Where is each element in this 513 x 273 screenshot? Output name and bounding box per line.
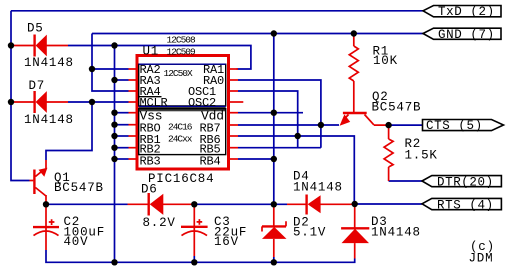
junction RB1 / bus — [111, 133, 117, 139]
pin stub RB3 (pin 9) — [129, 158, 137, 160]
pin stub RA2 (pin 1) — [129, 68, 137, 70]
wire RA0 pin to right vertical — [238, 80, 321, 148]
svg-text:1N4148: 1N4148 — [24, 113, 74, 127]
svg-text:12C50X: 12C50X — [164, 68, 194, 79]
pin stub Vdd (pin 14) — [230, 112, 239, 114]
wire mid rail left blue — [46, 203, 128, 205]
junction D5 line / Vss bus — [111, 42, 117, 48]
wire D2 lower blue — [273, 257, 275, 262]
diode D5 — [11, 35, 68, 57]
wire mid rail center blue — [194, 203, 287, 205]
svg-text:1N4148: 1N4148 — [371, 226, 421, 240]
svg-text:CTS (5): CTS (5) — [426, 119, 483, 133]
pin stub OSC2 (pin 15) — [230, 101, 244, 103]
junction RB6 / OSC1 branch — [295, 133, 301, 139]
wire RB0 pin — [115, 124, 129, 126]
connector DTR(20) — [422, 176, 501, 187]
pin stub RA0 (pin 17) — [230, 79, 239, 81]
svg-text:TxD (2): TxD (2) — [438, 5, 495, 19]
wire D5 line to 12C509 / RA1 — [68, 46, 251, 70]
wire GND to Vdd vertical x=273.8 — [273, 34, 275, 205]
junction RB3 / bus — [111, 156, 117, 162]
wire MCLR pin from D7 — [68, 101, 129, 103]
connector CTS (5) — [423, 120, 504, 131]
svg-text:PIC16C84: PIC16C84 — [148, 172, 214, 186]
svg-text:40V: 40V — [64, 235, 89, 249]
svg-text:RB3: RB3 — [140, 155, 161, 169]
wire RA3 pin — [115, 79, 129, 81]
junction mid rail / D2 — [271, 201, 277, 207]
pin underline RA4 — [139, 96, 162, 98]
pin stub OSC1 (pin 16) — [230, 90, 239, 92]
IC inner socket box upper — [139, 64, 226, 106]
junction TxD rail / D5 anode — [8, 42, 14, 48]
wire RB2 pin — [115, 147, 129, 149]
transistor Q1 BC547B — [30, 160, 48, 227]
pin stub RA4 (pin 3) — [129, 90, 137, 92]
junction RB2 / bus — [111, 145, 117, 151]
pin stub RB5 (pin 11) — [230, 147, 239, 149]
junction MCLR / Q1 emitter branch — [89, 99, 95, 105]
pin stub RB2 (pin 8) — [129, 147, 137, 149]
resistor R2 1.5K — [384, 125, 393, 181]
pin stub RB0 (pin 6) — [129, 124, 137, 126]
IC inner socket box lower — [139, 109, 226, 155]
wire GND rail — [92, 33, 424, 35]
pin stub RA1 (pin 18) — [230, 68, 239, 70]
svg-text:D5: D5 — [27, 22, 44, 36]
wire bottom rail — [46, 250, 355, 262]
pin stub RB4 (pin 10) — [230, 158, 239, 160]
wire OSC1 pin to vertical — [238, 91, 298, 148]
svg-text:16V: 16V — [214, 235, 239, 249]
wire GND rail corner down to RA4 pin — [92, 34, 129, 92]
wire RTS line — [355, 203, 422, 205]
resistor R1 10K — [349, 34, 358, 113]
pin stub RA3 (pin 2) — [129, 79, 137, 81]
pin stub Vss (pin 5) — [129, 112, 137, 114]
wire left vertical from TxD rail down to Q1 base — [11, 11, 30, 181]
svg-text:8.2V: 8.2V — [143, 216, 176, 230]
junction RTS line / D3 / RB6 branch — [352, 201, 358, 207]
svg-text:D7: D7 — [29, 79, 46, 93]
svg-text:12C508: 12C508 — [167, 35, 197, 46]
svg-text:1N4148: 1N4148 — [293, 181, 343, 195]
svg-text:DTR(20): DTR(20) — [437, 175, 494, 189]
svg-text:24C16: 24C16 — [168, 122, 193, 133]
junction bottom rail / D2 — [271, 259, 277, 265]
wire Vss pin — [115, 112, 129, 114]
svg-text:1.5K: 1.5K — [405, 149, 438, 163]
pin stub RB1 (pin 7) — [129, 135, 137, 137]
junction bottom rail / C3 — [191, 259, 197, 265]
connector TxD (2) — [423, 6, 501, 17]
diode D4 1N4148 — [287, 195, 355, 215]
svg-text:RTS (4): RTS (4) — [437, 198, 494, 212]
svg-text:JDM: JDM — [469, 252, 494, 266]
junction bottom rail / Vss bus — [111, 259, 117, 265]
junction CTS line / RA0 branch — [318, 122, 324, 128]
junction RA3 / Vss bus — [111, 77, 117, 83]
wire RB1 pin — [115, 135, 129, 137]
wire RB4 pin — [238, 158, 274, 160]
wire RB6 pin to RTS vertical — [238, 136, 354, 204]
diode D7 — [11, 91, 68, 113]
svg-text:U1: U1 — [143, 45, 160, 59]
wire vertical bus x=114.5 — [114, 46, 116, 263]
junction Vdd pin / branch — [271, 110, 277, 116]
IC U1 PIC16C84 red box — [137, 56, 229, 170]
junction mid rail / C3 — [191, 201, 197, 207]
wire RB7 / CTS line left part — [238, 124, 339, 126]
svg-text:GND (7): GND (7) — [438, 28, 495, 42]
wire MCLR down to Q1 emitter — [46, 102, 92, 160]
connector GND (7) — [423, 28, 501, 39]
diode D3 1N4148 — [341, 204, 369, 259]
svg-text:24Cxx: 24Cxx — [168, 134, 193, 145]
junction GND rail / Vdd branch — [271, 30, 277, 36]
diode D6 8.2V — [128, 193, 195, 216]
svg-text:BC547B: BC547B — [54, 181, 104, 195]
wire Vdd pin — [238, 112, 303, 114]
svg-text:1N4148: 1N4148 — [24, 56, 74, 70]
svg-text:BC547B: BC547B — [372, 101, 422, 115]
wire DTR line — [389, 180, 422, 182]
wire RB5 pin — [238, 147, 321, 149]
capacitor C2 100uF — [33, 219, 59, 250]
svg-text:10K: 10K — [373, 54, 398, 68]
capacitor C3 22uF — [181, 204, 208, 256]
junction RA2 tee — [89, 66, 95, 72]
transistor Q2 BC547B — [340, 113, 389, 126]
pin stub MCLR (pin 4) — [129, 101, 137, 103]
connector RTS (4) — [422, 198, 501, 209]
junction GND rail / R1 — [351, 30, 357, 36]
pin stub RB7 (pin 13) — [230, 124, 239, 126]
IC inner separator band — [139, 106, 226, 111]
wire TxD rail — [11, 10, 424, 12]
wire RA2 pin — [92, 68, 129, 70]
svg-text:5.1V: 5.1V — [293, 226, 326, 240]
junction Q1 collector / mid rail — [43, 201, 49, 207]
wire CTS line right part — [389, 124, 423, 126]
pin stub RB6 (pin 12) — [230, 135, 239, 137]
junction Vss pin / bus — [111, 110, 117, 116]
junction RB4 / branch — [271, 156, 277, 162]
junction TxD rail / D7 anode — [8, 99, 14, 105]
svg-text:12C509: 12C509 — [167, 47, 197, 58]
junction Q2 collector / R2 / CTS — [385, 122, 391, 128]
junction RB0 / bus — [111, 122, 117, 128]
zener D2 5.1V — [262, 204, 287, 257]
wire C3 lower blue — [193, 256, 195, 262]
svg-text:RB4: RB4 — [200, 155, 221, 169]
wire RB3 pin — [115, 158, 129, 160]
